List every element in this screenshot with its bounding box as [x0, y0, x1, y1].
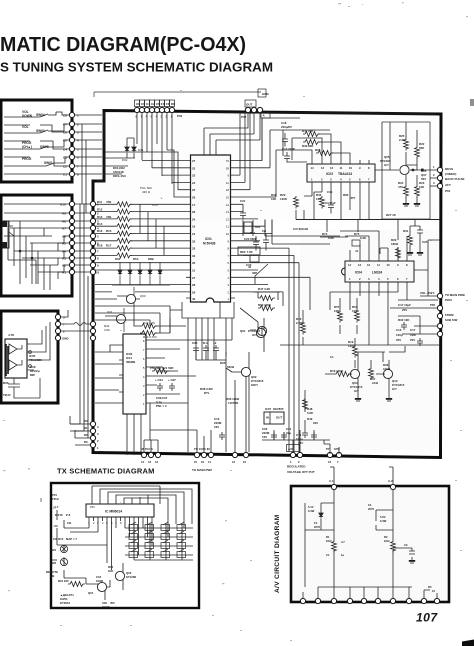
svg-text:5: 5	[77, 148, 79, 152]
svg-text:4.7K: 4.7K	[8, 333, 15, 337]
cap C72	[311, 432, 317, 440]
resistor R12	[115, 209, 132, 214]
wires	[14, 322, 50, 398]
svg-text:D03: D03	[115, 257, 121, 261]
svg-text:10: 10	[96, 271, 100, 275]
cap C17	[401, 322, 407, 330]
svg-text:IC MN6014: IC MN6014	[105, 510, 122, 514]
cap C06	[8, 378, 20, 394]
svg-text:A4: A4	[62, 250, 66, 254]
IC TX pins top	[92, 500, 148, 504]
svg-text:CΩ: CΩ	[67, 521, 72, 525]
horizontals lower-left	[95, 345, 123, 403]
svg-text:16: 16	[201, 460, 205, 464]
svg-text:(VIDEO): (VIDEO)	[445, 172, 456, 176]
svg-text:3: 3	[63, 316, 65, 320]
svg-text:Q01: Q01	[240, 329, 246, 333]
resistor R26 vertical	[294, 196, 299, 209]
svg-text:GND: GND	[262, 92, 270, 96]
resistor R25 vertical	[404, 138, 409, 151]
key matrix switches	[129, 522, 186, 558]
svg-text:C14: C14	[250, 231, 256, 235]
svg-text:△L7: △L7	[52, 505, 59, 509]
svg-text:2: 2	[298, 460, 300, 464]
svg-text:16V: 16V	[214, 425, 219, 429]
wire top bus	[94, 92, 261, 97]
wires to C pins	[49, 112, 70, 174]
svg-text:10: 10	[226, 232, 230, 236]
svg-text:RTL: RTL	[204, 391, 210, 395]
resistor R13	[115, 216, 132, 221]
verticals from IC03 area down to bus	[262, 118, 360, 220]
svg-text:PROG: PROG	[22, 157, 32, 161]
A/V top circles	[331, 484, 336, 489]
svg-text:BACK PULSE: BACK PULSE	[445, 177, 465, 181]
right side extra parts R35/C25	[410, 220, 423, 253]
svg-text:33: 33	[192, 247, 196, 251]
resistor R29b zigzag	[397, 246, 399, 248]
IC02 body	[123, 334, 146, 414]
svg-text:A5: A5	[62, 242, 66, 246]
svg-text:15: 15	[194, 460, 198, 464]
svg-text:C7: C7	[63, 123, 67, 127]
IC TX body	[86, 504, 154, 517]
svg-text:C6: C6	[63, 131, 67, 135]
cap C71	[302, 430, 308, 438]
svg-text:X01: X01	[255, 225, 261, 229]
svg-text:DOWN: DOWN	[22, 114, 33, 118]
svg-text:12: 12	[243, 460, 247, 464]
TX schematic box	[51, 483, 199, 608]
svg-text:P01: P01	[445, 189, 451, 193]
svg-text:D8: D8	[171, 102, 175, 106]
dark hatch left of IC05	[6, 344, 8, 376]
transistor Q06	[257, 326, 266, 335]
wire rows mid-left	[95, 306, 170, 333]
svg-text:R40 4.7K3: R40 4.7K3	[143, 335, 157, 339]
resistor R42	[140, 324, 157, 329]
vertical bundle center	[289, 248, 310, 360]
svg-text:4: 4	[77, 139, 79, 143]
A1-A10 connector circles	[69, 201, 74, 274]
resistor R50	[258, 306, 275, 311]
svg-text:A2: A2	[62, 264, 66, 268]
wire bundle right of IC01	[243, 220, 310, 307]
svg-text:2: 2	[93, 521, 95, 525]
caps row C05	[193, 348, 219, 351]
svg-text:11: 11	[226, 225, 229, 229]
resistor AV R1 vertical	[332, 540, 337, 553]
transistor Q01 top	[256, 328, 265, 337]
bottom stubs	[303, 587, 437, 599]
svg-text:C2: C2	[151, 102, 155, 106]
switch SW03	[40, 130, 58, 141]
svg-text:R01 220: R01 220	[58, 579, 69, 583]
svg-text:R47 3.3K: R47 3.3K	[258, 287, 271, 291]
svg-text:34: 34	[192, 254, 196, 258]
corner mark	[462, 640, 474, 646]
svg-text:Q03: Q03	[140, 294, 146, 298]
wires from IC bottom pins down/right	[125, 521, 152, 555]
svg-text:IN: IN	[266, 416, 269, 420]
svg-text:7: 7	[115, 521, 117, 525]
svg-text:+ B: + B	[50, 574, 54, 578]
bottom bus	[318, 586, 412, 588]
svg-text:OUT: OUT	[246, 103, 253, 107]
ground Q05 emitter	[403, 203, 409, 206]
IC01 pin stubs left	[186, 161, 191, 299]
resistor R39	[303, 140, 320, 145]
svg-text:21: 21	[192, 232, 196, 236]
svg-text:J2: J2	[248, 265, 252, 269]
transistor Q10	[383, 369, 392, 378]
ground R31	[407, 252, 413, 255]
op-amp triangles	[9, 344, 17, 370]
svg-text:↓03: ↓03	[53, 524, 58, 528]
svg-text:13: 13	[148, 460, 152, 464]
transistor Q04	[350, 369, 359, 378]
svg-text:R05: R05	[220, 361, 226, 365]
left edge lower connectors	[90, 421, 95, 426]
resistor R28	[316, 151, 333, 156]
cap branch chain2	[393, 548, 412, 560]
label D01,D02	[113, 166, 126, 178]
svg-text:10K: 10K	[108, 569, 113, 573]
resistor R19 vertical	[353, 345, 358, 358]
svg-text:12: 12	[328, 460, 332, 464]
svg-text:R06: R06	[3, 381, 9, 385]
LED2	[60, 558, 67, 565]
svg-text:1V/2W2: 1V/2W2	[228, 401, 239, 405]
svg-text:14: 14	[141, 460, 145, 464]
svg-text:A7: A7	[62, 227, 66, 231]
switch SW04	[40, 112, 56, 125]
svg-text:Q01: Q01	[88, 591, 94, 595]
svg-text:C6: C6	[141, 102, 145, 106]
svg-text:SW04: SW04	[36, 113, 45, 117]
svg-text:R16: R16	[97, 229, 103, 233]
svg-text:C1: C1	[63, 173, 67, 177]
svg-text:D5A: D5A	[133, 257, 139, 261]
svg-text:C8: C8	[136, 102, 140, 106]
svg-text:R50 100K: R50 100K	[258, 303, 272, 307]
svg-text:↓: ↓	[120, 501, 121, 504]
inner thin frame	[382, 122, 430, 219]
svg-text:R2: R2	[84, 433, 88, 437]
wire rows from thick edge	[105, 152, 147, 174]
REF box	[238, 247, 260, 255]
ground R23	[414, 203, 420, 206]
ground C25	[417, 252, 423, 255]
svg-text:11: 11	[208, 460, 211, 464]
chain 2 vertical	[392, 489, 394, 587]
connector P02 OUT circles	[245, 100, 256, 107]
svg-text:TU 12VА IN: TU 12VА IN	[194, 447, 210, 451]
svg-text:3.6K: 3.6K	[104, 328, 110, 332]
svg-text:C8: C8	[63, 114, 67, 118]
svg-text:TX SCHEMATIC DIAGRAM: TX SCHEMATIC DIAGRAM	[57, 467, 155, 476]
svg-text:30N2B: 30N2B	[126, 360, 136, 364]
svg-text:R.4: R.4	[203, 341, 208, 345]
svg-text:MAP × 7: MAP × 7	[66, 537, 77, 541]
svg-text:+2: +2	[213, 341, 217, 345]
svg-text:PБо: PБо	[100, 450, 106, 454]
svg-text:C05: C05	[192, 341, 198, 345]
svg-text:R14: R14	[97, 222, 103, 226]
svg-text:A10: A10	[60, 203, 66, 207]
node box	[258, 89, 266, 97]
resistor R74	[320, 236, 348, 238]
cap C18	[282, 133, 288, 147]
svg-text:KHZС: KHZС	[102, 605, 110, 609]
svg-text:CN: CN	[156, 102, 160, 106]
junction dots	[19, 250, 21, 252]
svg-text:100M: 100M	[96, 579, 104, 583]
wires below IC03	[312, 186, 369, 219]
ground AV	[409, 560, 415, 563]
svg-text:4: 4	[97, 425, 99, 429]
svg-text:PNL × 2: PNL × 2	[156, 404, 167, 408]
verticals below IC02	[127, 403, 188, 455]
cap C19	[219, 432, 225, 440]
resistor R14	[115, 224, 132, 229]
connector circles right edge mid	[437, 293, 442, 298]
resistor R41	[303, 132, 320, 137]
connector P01 circles	[437, 167, 442, 172]
svg-text:13: 13	[232, 460, 236, 464]
TX left components	[52, 510, 107, 578]
ground Q10	[386, 398, 392, 401]
svg-text:16V: 16V	[262, 435, 267, 439]
crystal X01	[244, 222, 252, 233]
svg-text:KT2954: KT2954	[60, 601, 70, 605]
svg-text:G/Y: G/Y	[252, 333, 257, 337]
svg-text:P#03: P#03	[445, 298, 452, 302]
svg-text:VOL: VOL	[22, 125, 29, 129]
svg-text:OUT: OUT	[276, 416, 282, 420]
svg-text:C20 560P: C20 560P	[244, 237, 257, 241]
main block left edge connector circles	[90, 201, 95, 274]
svg-text:A/V CIRCUIT DIAGRAM: A/V CIRCUIT DIAGRAM	[274, 514, 281, 593]
svg-text:8: 8	[97, 257, 99, 261]
resistor R06b vertical	[369, 367, 374, 380]
wires feeding bottom connectors	[144, 376, 339, 454]
svg-text:8: 8	[77, 173, 79, 177]
svg-text:DIF16: DIF16	[55, 513, 63, 517]
svg-text:32: 32	[192, 239, 196, 243]
svg-text:T2LD: T2LD	[3, 393, 11, 397]
transistor Q03	[117, 287, 136, 313]
svg-text:A-1: A-1	[329, 479, 334, 483]
svg-text:P50 56K R21 52R: P50 56K R21 52R	[150, 366, 174, 370]
svg-text:M 50436: M 50436	[203, 242, 216, 246]
svg-text:1: 1	[77, 114, 79, 118]
svg-text:FROM: FROM	[445, 313, 454, 317]
C1-C8 connector circles	[69, 112, 74, 176]
svg-text:6: 6	[111, 521, 113, 525]
A/V bottom circles	[300, 598, 305, 603]
svg-text:DEVS: DEVS	[445, 167, 453, 171]
main tuning block border	[93, 111, 441, 458]
vertical taps on rows	[140, 204, 164, 255]
svg-text:3: 3	[77, 131, 79, 135]
resistor R22 vertical	[415, 146, 420, 159]
svg-text:1W: 1W	[262, 229, 267, 233]
resistor R47	[258, 296, 275, 301]
svg-text:A6: A6	[62, 235, 66, 239]
vertical link wires	[82, 124, 86, 213]
resistor AV R2 vertical	[391, 540, 396, 553]
R05 vertical	[225, 352, 227, 356]
resistor R18	[115, 246, 132, 251]
squiggle wire to main block	[60, 310, 91, 331]
svg-text:29: 29	[192, 290, 196, 294]
svg-text:31: 31	[192, 269, 196, 273]
A/V circuit box	[291, 486, 449, 602]
svg-text:REF 7.5K: REF 7.5K	[240, 250, 254, 254]
svg-text:SW1: SW1	[50, 548, 57, 552]
svg-text:2: 2	[97, 439, 99, 443]
wire verticals from P04	[137, 112, 172, 184]
svg-text:2: 2	[63, 330, 65, 334]
svg-text:GR/Y: GR/Y	[251, 383, 258, 387]
svg-text:VOLTAGЕ ОУT PUT: VOLTAGЕ ОУT PUT	[287, 470, 315, 474]
svg-text:M/F: M/F	[30, 373, 35, 377]
resistor R16	[115, 231, 132, 236]
wires C pins to main block	[74, 115, 102, 213]
IC01 body	[191, 155, 231, 302]
cap C21	[240, 204, 246, 219]
IC05 rect	[5, 339, 27, 378]
top nested L wires to matrix columns	[100, 489, 192, 537]
caps C06 C07	[157, 383, 163, 391]
transistor Q01L	[105, 308, 126, 332]
transistor Q02	[241, 367, 250, 376]
svg-text:KT1268: KT1268	[126, 575, 136, 579]
long wires from top right going to IC01	[204, 112, 260, 140]
svg-text:D8B: D8B	[148, 257, 154, 261]
svg-text:R17: R17	[106, 244, 112, 248]
pins right	[27, 344, 34, 370]
svg-text:560Ω: 560Ω	[227, 365, 235, 369]
svg-text:A3: A3	[62, 257, 66, 261]
audio box IC05	[1, 311, 58, 403]
switch SW01	[46, 163, 62, 174]
chain 1 vertical	[333, 489, 335, 587]
connector P04 label boxes	[135, 100, 175, 107]
wires above IC04	[340, 231, 407, 257]
svg-text:FF: FF	[161, 102, 165, 106]
svg-text:REGULATED: REGULATED	[287, 465, 306, 469]
svg-text:7: 7	[337, 460, 339, 464]
svg-text:2: 2	[77, 123, 79, 127]
svg-text:SUB S/W: SUB S/W	[445, 318, 458, 322]
svg-text:C4: C4	[146, 102, 150, 106]
resistor R23 vertical	[415, 185, 420, 198]
svg-text:TO MAIN PWB: TO MAIN PWB	[445, 293, 465, 297]
svg-text:1: 1	[290, 460, 292, 464]
svg-text:+ C07: + C07	[168, 378, 176, 382]
resistor R15	[115, 238, 132, 243]
connector P04 circles	[134, 107, 139, 112]
svg-text:R42 2.7K: R42 2.7K	[143, 321, 155, 325]
mesh wires	[4, 204, 70, 272]
caps cluster top-left	[253, 234, 269, 251]
wires to right edge connector P01	[410, 169, 437, 186]
svg-text:IC07: IC07	[265, 407, 271, 411]
svg-text:9: 9	[97, 264, 99, 268]
diode row D05-D08	[112, 262, 170, 285]
small connector symbol in A box (cut at edge)	[2, 221, 14, 248]
cap C15	[284, 152, 307, 163]
svg-text:TO MAIN PW2: TO MAIN PW2	[192, 468, 212, 472]
wires from main left edge into IC01	[95, 204, 186, 270]
svg-text:AFT: AFT	[445, 183, 451, 187]
cap C61	[281, 432, 287, 440]
svg-text:R3: R3	[84, 440, 88, 444]
LED1	[60, 545, 67, 552]
svg-text:R1: R1	[84, 426, 88, 430]
svg-text:FF: FF	[166, 102, 170, 106]
svg-text:(CH▲): (CH▲)	[22, 145, 32, 149]
svg-text:6: 6	[77, 156, 79, 160]
resistor R30 vertical	[320, 196, 325, 209]
svg-text:A/V: A/V	[288, 447, 293, 451]
feed wires from main block	[330, 467, 393, 484]
notch J1	[352, 240, 360, 246]
svg-text:4: 4	[102, 521, 104, 525]
cap C62	[271, 432, 277, 440]
wires A pins to main block circles	[70, 204, 91, 438]
wire diagonal J2	[255, 264, 268, 284]
cap C13b	[417, 338, 423, 346]
svg-text:A8: A8	[62, 220, 66, 224]
svg-text:455: 455	[110, 601, 115, 605]
diode D02	[125, 145, 129, 153]
IC05 box edge circles	[55, 314, 60, 340]
svg-text:27: 27	[192, 276, 196, 280]
resistor R24 vertical	[404, 185, 409, 198]
svg-text:SW2: SW2	[50, 561, 57, 565]
IC01 pin stubs right	[231, 161, 236, 299]
svg-text:22μ: 22μ	[286, 431, 291, 435]
bus down from y219	[327, 220, 398, 241]
svg-text:A1: A1	[62, 271, 66, 275]
vertical bundle above right pins	[235, 112, 250, 190]
IC06 regulator box	[264, 412, 284, 424]
resistor R16b	[334, 372, 351, 377]
svg-text:SW03: SW03	[36, 129, 45, 133]
wires	[375, 122, 417, 203]
main edge circles near IC05	[90, 321, 95, 326]
resistor R31 vertical	[408, 234, 413, 247]
svg-text:A-2: A-2	[388, 479, 393, 483]
chain 1 branch	[305, 503, 334, 587]
svg-text:TR.Ω: TR.Ω	[52, 497, 60, 501]
resistor R53 vertical	[355, 310, 360, 323]
wire horizontals into IC01 upper pins	[142, 150, 186, 197]
TX transistors	[115, 571, 124, 580]
resistor R51a	[152, 369, 169, 374]
drops from bus to IC04	[265, 220, 340, 245]
svg-text:C3: C3	[63, 156, 67, 160]
wire bus from IC01 to IC03	[262, 118, 330, 197]
svg-text:MATIC DIAGRAM(PC-O4X): MATIC DIAGRAM(PC-O4X)	[0, 34, 246, 56]
svg-text:P03: P03	[90, 505, 95, 509]
svg-text:35: 35	[192, 261, 196, 265]
svg-text:40: 40	[192, 297, 196, 301]
connector box A1-A10	[1, 195, 72, 296]
